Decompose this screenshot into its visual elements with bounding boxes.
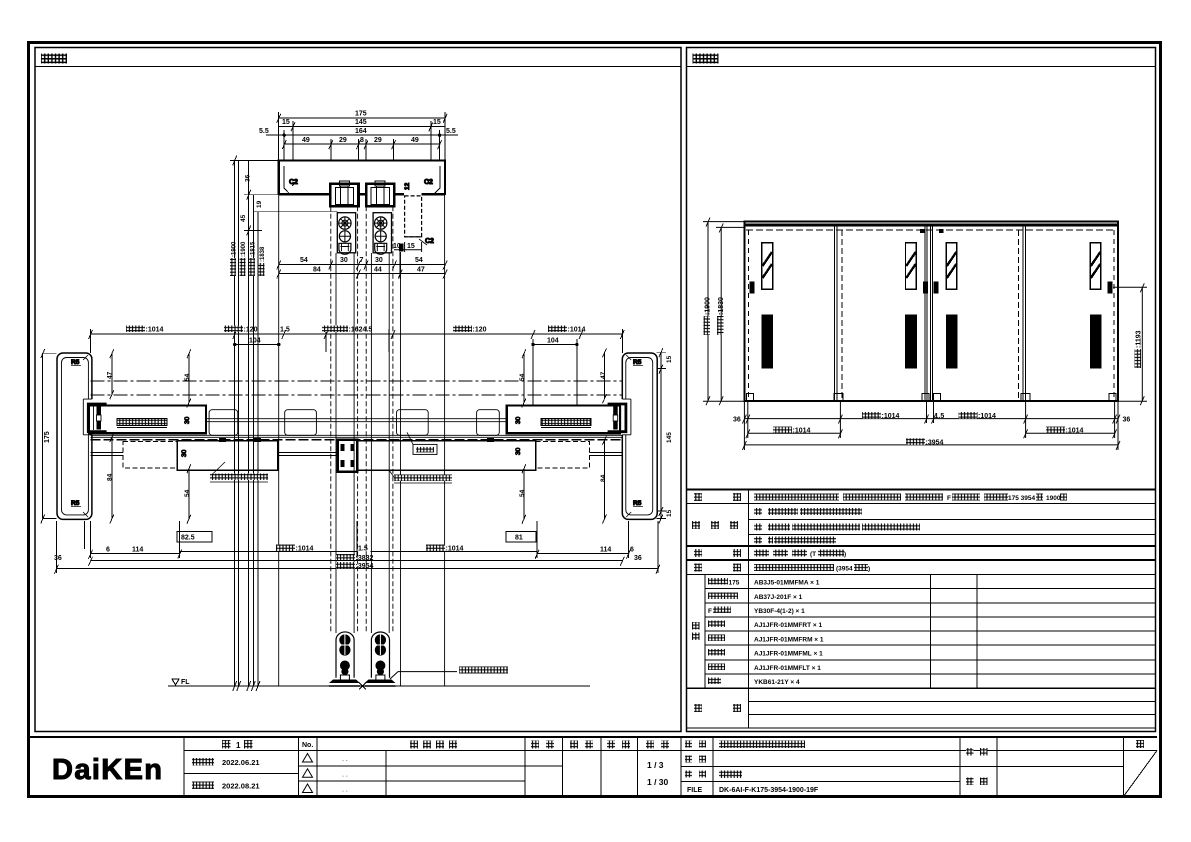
label wakugai-haba:3954 <box>906 438 925 445</box>
svg-text:R5: R5 <box>633 500 642 507</box>
svg-text:84: 84 <box>600 474 607 482</box>
left jamb profile <box>57 353 107 519</box>
zumei label + sanmenzu <box>685 771 692 778</box>
svg-text:1 / 3: 1 / 3 <box>647 760 664 770</box>
dim 47 left <box>111 353 113 394</box>
dim 104 left <box>235 344 279 346</box>
kakunin header <box>570 741 578 749</box>
dim 15/145/15 far right <box>660 352 662 518</box>
svg-text:FILE: FILE <box>687 787 702 794</box>
svg-text:5.5: 5.5 <box>446 128 456 135</box>
dim 54 upper-left <box>188 353 190 402</box>
svg-text::1815: :1815 <box>251 241 257 257</box>
hanger unit 1 <box>330 181 358 206</box>
left view panel frame <box>35 48 681 732</box>
svg-text::1014: :1014 <box>146 327 164 334</box>
door top section 1 with rollers <box>337 213 355 255</box>
svg-text:84: 84 <box>313 267 321 274</box>
svg-text:82.5: 82.5 <box>181 535 195 542</box>
row naihou-haba 3882 <box>91 560 623 562</box>
row A right: 114 / 6 <box>537 553 628 555</box>
svg-text:C2: C2 <box>289 179 298 186</box>
svg-text:104: 104 <box>249 338 261 345</box>
dim hikite-daka 1193 (right) <box>1141 287 1143 401</box>
label kaikouhaba:1014 row2 right <box>1046 427 1065 434</box>
row kata-shiki label <box>694 493 702 501</box>
svg-text:F: F <box>947 495 951 502</box>
svg-text:175: 175 <box>355 111 367 118</box>
svg-text:R5: R5 <box>633 359 642 366</box>
svg-text:81: 81 <box>515 535 523 542</box>
hanger unit 2 <box>366 181 394 206</box>
label naihou-daka:1830 rotated <box>717 297 725 335</box>
dim 10/15 under vpiece <box>393 242 422 252</box>
svg-text:10: 10 <box>393 243 401 250</box>
row2 content: tobira panel: olefin sheet <box>754 508 762 515</box>
svg-text:2022.08.21: 2022.08.21 <box>222 782 260 791</box>
svg-text:F: F <box>708 608 712 615</box>
svg-text:54: 54 <box>519 373 526 381</box>
rail lines to center <box>278 452 338 454</box>
label yuukou-kaikou:1624.5 <box>322 326 348 333</box>
hidden cap dashed right <box>536 442 590 469</box>
row4 content: waku: olefin sheet <box>754 537 762 544</box>
svg-text:175: 175 <box>44 431 51 443</box>
svg-text:44: 44 <box>374 267 382 274</box>
meisho label + value <box>685 741 692 748</box>
row3 content: styrene resin (mist) <box>754 524 762 531</box>
svg-text:7: 7 <box>360 257 364 264</box>
solid box B <box>357 441 535 470</box>
page (ketsu) header <box>1136 740 1144 748</box>
lower band: to-saki dashed line with stops <box>91 438 623 442</box>
svg-text:15: 15 <box>666 509 673 517</box>
right view panel frame <box>687 48 1156 732</box>
plan top dim row <box>89 329 625 405</box>
bottom roller unit 2 <box>365 632 396 686</box>
svg-text:19: 19 <box>256 200 263 208</box>
door frame outline <box>744 222 1118 402</box>
label hikinokoshi:120 right <box>453 326 472 333</box>
dim naihou-daka 1830 (left inner) <box>720 227 722 401</box>
totte (handle) label <box>694 549 702 557</box>
svg-text:175 3954: 175 3954 <box>1008 495 1035 502</box>
svg-text:1 / 30: 1 / 30 <box>647 777 669 787</box>
hinban group label <box>692 622 700 630</box>
edge pull right stile <box>1108 282 1113 294</box>
label kaikouhaba:1014 row1 mid-left <box>862 412 881 419</box>
dim 47 right <box>604 352 606 398</box>
svg-text:R5: R5 <box>71 500 80 507</box>
long vertical projection lines <box>279 195 445 686</box>
svg-text:29: 29 <box>374 137 382 144</box>
left vertical dim bundle lines <box>230 156 337 691</box>
shukushaku (scale) <box>646 741 654 749</box>
row A center: 1014 / 1.5 / 1014 <box>180 551 357 553</box>
svg-text:AJ1JFR-01MMFML × 1: AJ1JFR-01MMFML × 1 <box>754 651 823 658</box>
flush handle panel 3 <box>946 314 958 368</box>
svg-text:1900: 1900 <box>1046 495 1061 502</box>
panel divider 2 (meeting stiles) <box>924 227 926 402</box>
svg-text::1900: :1900 <box>705 297 712 315</box>
sakusei header <box>607 741 615 749</box>
kenmei label <box>966 748 974 756</box>
svg-text:164: 164 <box>355 128 367 135</box>
svg-text:12: 12 <box>404 182 411 190</box>
rev header dai-1-han <box>222 740 253 750</box>
dim wakugai-daka 1900 (left outer) <box>707 222 709 402</box>
svg-text:1: 1 <box>236 741 241 750</box>
label kaikou-haba:1014 right <box>548 326 567 333</box>
dim 175 <box>279 117 445 119</box>
svg-text:15: 15 <box>282 119 290 126</box>
svg-text:): ) <box>844 551 846 558</box>
row5 content: hikite kakuza tosou (T silver) <box>754 550 769 557</box>
svg-text:30: 30 <box>181 449 188 457</box>
head channel profile <box>279 161 445 195</box>
svg-text:6: 6 <box>630 547 634 554</box>
svg-text:1.5: 1.5 <box>935 413 945 420</box>
82.5 boxed <box>177 532 212 543</box>
svg-text:15: 15 <box>433 119 441 126</box>
svg-text:YKB61-21Y × 4: YKB61-21Y × 4 <box>754 679 800 686</box>
rotated height labels (wakugai-daka:1900 etc) <box>230 241 266 276</box>
svg-text::3954: :3954 <box>356 563 374 570</box>
svg-text:(T: (T <box>810 551 816 558</box>
bottom dim row 3 (3954) <box>744 444 1118 446</box>
svg-text::1838: :1838 <box>260 246 266 262</box>
hinban sub rows labels <box>708 578 728 585</box>
dim 175 full left <box>42 353 44 518</box>
lower band boxes <box>91 440 623 472</box>
svg-text:84: 84 <box>107 473 114 481</box>
row1 content: omoiyari kids series ... <box>754 494 839 501</box>
svg-text::1900: :1900 <box>232 241 238 257</box>
svg-text:8: 8 <box>360 137 364 144</box>
flat rail leader + label <box>390 667 508 680</box>
svg-text:47: 47 <box>417 267 425 274</box>
dim 104 right <box>533 344 577 346</box>
svg-text:114: 114 <box>600 547 611 554</box>
svg-text:54: 54 <box>300 257 308 264</box>
bottom roller unit 1 <box>329 632 360 686</box>
left stile hidden line <box>748 230 750 400</box>
leader: kadou-waku label left <box>210 462 268 482</box>
flush handle panel 2 <box>905 314 917 368</box>
svg-text::120: :120 <box>244 327 258 334</box>
svg-text::1624.5: :1624.5 <box>349 327 373 334</box>
stopper outline boxes on track <box>209 410 499 436</box>
svg-text:36: 36 <box>733 417 741 424</box>
svg-text:145: 145 <box>355 119 367 126</box>
label kaikou-haba:1014 left <box>126 326 145 333</box>
edge pulls meeting stiles <box>923 282 928 294</box>
right jamb profile <box>608 353 658 519</box>
seitei-bi 2022.06.21 <box>192 758 214 766</box>
svg-text:C2: C2 <box>425 238 434 245</box>
svg-text::1014: :1014 <box>446 546 464 553</box>
chamfer C2 left <box>284 166 290 194</box>
svg-text:6: 6 <box>106 547 110 554</box>
plan vertical dims <box>41 348 673 523</box>
svg-text::1830: :1830 <box>718 297 725 315</box>
dim 49/29/8/29/49 <box>284 143 439 145</box>
rotated small dims 36/19/45 <box>240 174 263 222</box>
svg-text:145: 145 <box>666 432 673 443</box>
dim 84 left <box>111 437 113 519</box>
svg-text:15: 15 <box>666 355 673 363</box>
svg-text:AJ1JFR-01MMFRT × 1: AJ1JFR-01MMFRT × 1 <box>754 622 822 629</box>
bottom guides <box>747 394 754 401</box>
label danmenzu (section view title) <box>41 54 67 64</box>
svg-text:AB37J-201F × 1: AB37J-201F × 1 <box>754 594 803 601</box>
svg-text:): ) <box>868 566 870 573</box>
dim 54 upper-right <box>523 353 525 402</box>
svg-text:54: 54 <box>415 257 423 264</box>
svg-text:YB30F-4(1-2) × 1: YB30F-4(1-2) × 1 <box>754 608 805 615</box>
81 boxed <box>506 532 536 543</box>
label hikinokoshi:120 left <box>224 326 243 333</box>
svg-text:36: 36 <box>1123 417 1131 424</box>
svg-text:30: 30 <box>515 416 522 424</box>
dim 84 right <box>604 440 606 519</box>
window panel 4 <box>1090 243 1101 289</box>
svg-text:47: 47 <box>107 371 114 379</box>
svg-text:36: 36 <box>54 555 62 562</box>
svg-text:36: 36 <box>245 174 252 182</box>
upper cap rail left <box>89 406 206 434</box>
C2 label for piece <box>419 239 427 245</box>
svg-text:1.5: 1.5 <box>358 546 368 553</box>
svg-text:AJ1JFR-01MMFRM × 1: AJ1JFR-01MMFRM × 1 <box>754 637 824 644</box>
elevation dim labels <box>704 297 1143 446</box>
label hikido-atari-cap underlined <box>117 419 167 426</box>
svg-text:54: 54 <box>519 489 526 497</box>
revision triangles <box>303 754 313 793</box>
svg-text:114: 114 <box>132 547 143 554</box>
svg-text::3954: :3954 <box>926 439 944 446</box>
svg-text:No.: No. <box>302 742 313 749</box>
tanto label <box>966 778 974 786</box>
dim row 84/44/47 <box>277 252 447 279</box>
svg-text:175: 175 <box>729 580 740 587</box>
svg-text:15: 15 <box>407 243 415 250</box>
upper cap rail right <box>507 406 620 434</box>
tostop tag label <box>407 432 437 454</box>
svg-text:. .: . . <box>342 756 348 763</box>
svg-text:49: 49 <box>411 137 419 144</box>
svg-text:FL: FL <box>181 679 190 686</box>
svg-text::120: :120 <box>473 327 487 334</box>
kaitei-bi 2022.08.21 <box>192 782 214 790</box>
svg-text:47: 47 <box>600 371 607 379</box>
svg-text:5.5: 5.5 <box>259 128 269 135</box>
svg-text:(3954: (3954 <box>836 566 853 573</box>
svg-text:30: 30 <box>375 257 383 264</box>
label kaikouhaba:1014 row1 mid-right <box>959 412 978 419</box>
svg-text::1014: :1014 <box>1066 428 1084 435</box>
top guide marks <box>920 229 925 233</box>
svg-text:30: 30 <box>340 257 348 264</box>
svg-text:DaiKEn: DaiKEn <box>52 754 161 786</box>
svg-text:45: 45 <box>240 214 247 222</box>
head rail thick band <box>744 224 1118 227</box>
panel divider 1 <box>834 227 836 402</box>
svg-text:104: 104 <box>547 338 559 345</box>
label wakugai-daka:1900 rotated <box>704 297 712 335</box>
svg-text:30: 30 <box>184 416 191 424</box>
shounin header <box>531 741 539 749</box>
cap end in receiver <box>97 407 102 416</box>
edge pull left stile <box>749 282 754 294</box>
svg-text::1014: :1014 <box>793 428 811 435</box>
svg-text::1014: :1014 <box>882 413 900 420</box>
leader: kadou-waku label right <box>389 470 452 483</box>
svg-text::1014: :1014 <box>978 413 996 420</box>
label hikite-daka:1193 rotated <box>1135 330 1143 368</box>
shiage label (rows 2-4) <box>692 521 700 529</box>
cap receiver channel <box>88 404 106 432</box>
svg-text::1014: :1014 <box>296 546 314 553</box>
svg-text:R5: R5 <box>71 359 80 366</box>
svg-text:36: 36 <box>634 555 642 562</box>
window panel 2 <box>906 243 917 289</box>
bikou label <box>694 704 702 712</box>
flush handle panel 4 <box>1090 314 1102 368</box>
row6 content: flat rail for 4 panels <box>754 564 834 571</box>
row A left: 6 / 114 <box>91 553 180 555</box>
C2 label left <box>292 181 297 186</box>
svg-text:49: 49 <box>302 137 310 144</box>
top track rail lines <box>91 419 623 438</box>
right stile hidden line <box>1113 230 1115 400</box>
svg-text:C2: C2 <box>424 179 433 186</box>
window panel 1 <box>762 243 773 289</box>
svg-text:DK-6AI-F-K175-3954-1900-19F: DK-6AI-F-K175-3954-1900-19F <box>719 787 819 794</box>
dim 54 lower-left <box>188 468 190 518</box>
svg-text:54: 54 <box>184 373 191 381</box>
label kaikouhaba:1014 row2 left <box>773 427 792 434</box>
R5 labels <box>83 355 88 360</box>
svg-text::3882: :3882 <box>356 555 374 562</box>
dim row 54/30/7/30/54 <box>277 257 447 270</box>
door top section 2 with rollers <box>373 213 391 255</box>
svg-text:. .: . . <box>342 772 348 779</box>
svg-text:29: 29 <box>339 137 347 144</box>
center coupler <box>338 440 358 472</box>
svg-text::1193: :1193 <box>1136 330 1143 348</box>
C2 label right <box>426 179 431 184</box>
flush handle panel 1 <box>761 314 773 368</box>
plan centerline dashed 2 <box>91 394 623 396</box>
svg-text:2022.06.21: 2022.06.21 <box>222 758 260 767</box>
hidden cap dashed left <box>123 442 177 469</box>
svg-text:AB3J5-01MMFMA × 1: AB3J5-01MMFMA × 1 <box>754 580 820 587</box>
hinban label <box>685 756 692 763</box>
bottom dim row 2 <box>748 432 841 434</box>
kaitei-rireki header <box>410 741 457 749</box>
svg-text:. .: . . <box>342 787 348 794</box>
svg-text:AJ1JFR-01MMFLT × 1: AJ1JFR-01MMFLT × 1 <box>754 665 821 672</box>
label shomenzu (front view title) <box>693 54 719 64</box>
svg-text:54: 54 <box>184 489 191 497</box>
dim 164 with 5.5 <box>266 134 458 136</box>
bottom dim row 1 <box>744 418 1118 420</box>
svg-text:1.5: 1.5 <box>280 327 290 334</box>
FL line <box>168 679 590 690</box>
solid box A <box>177 441 278 470</box>
svg-text::1014: :1014 <box>568 327 586 334</box>
buhin label <box>694 564 702 572</box>
dim 15/145/15 <box>279 125 445 127</box>
panel divider 3 <box>1018 230 1020 401</box>
plan centerline dashed <box>91 380 623 382</box>
dim 54 lower-right <box>523 468 525 518</box>
svg-text::1900: :1900 <box>241 241 247 257</box>
window panel 3 <box>946 243 957 289</box>
hidden track dashed line <box>746 229 1116 231</box>
vertical frame piece right (dashed) <box>404 182 434 245</box>
plan bottom dims <box>54 521 660 574</box>
row wakugai-haba 3954 <box>56 568 658 570</box>
elevation dimensions <box>703 218 1147 450</box>
svg-text:30: 30 <box>515 447 522 455</box>
